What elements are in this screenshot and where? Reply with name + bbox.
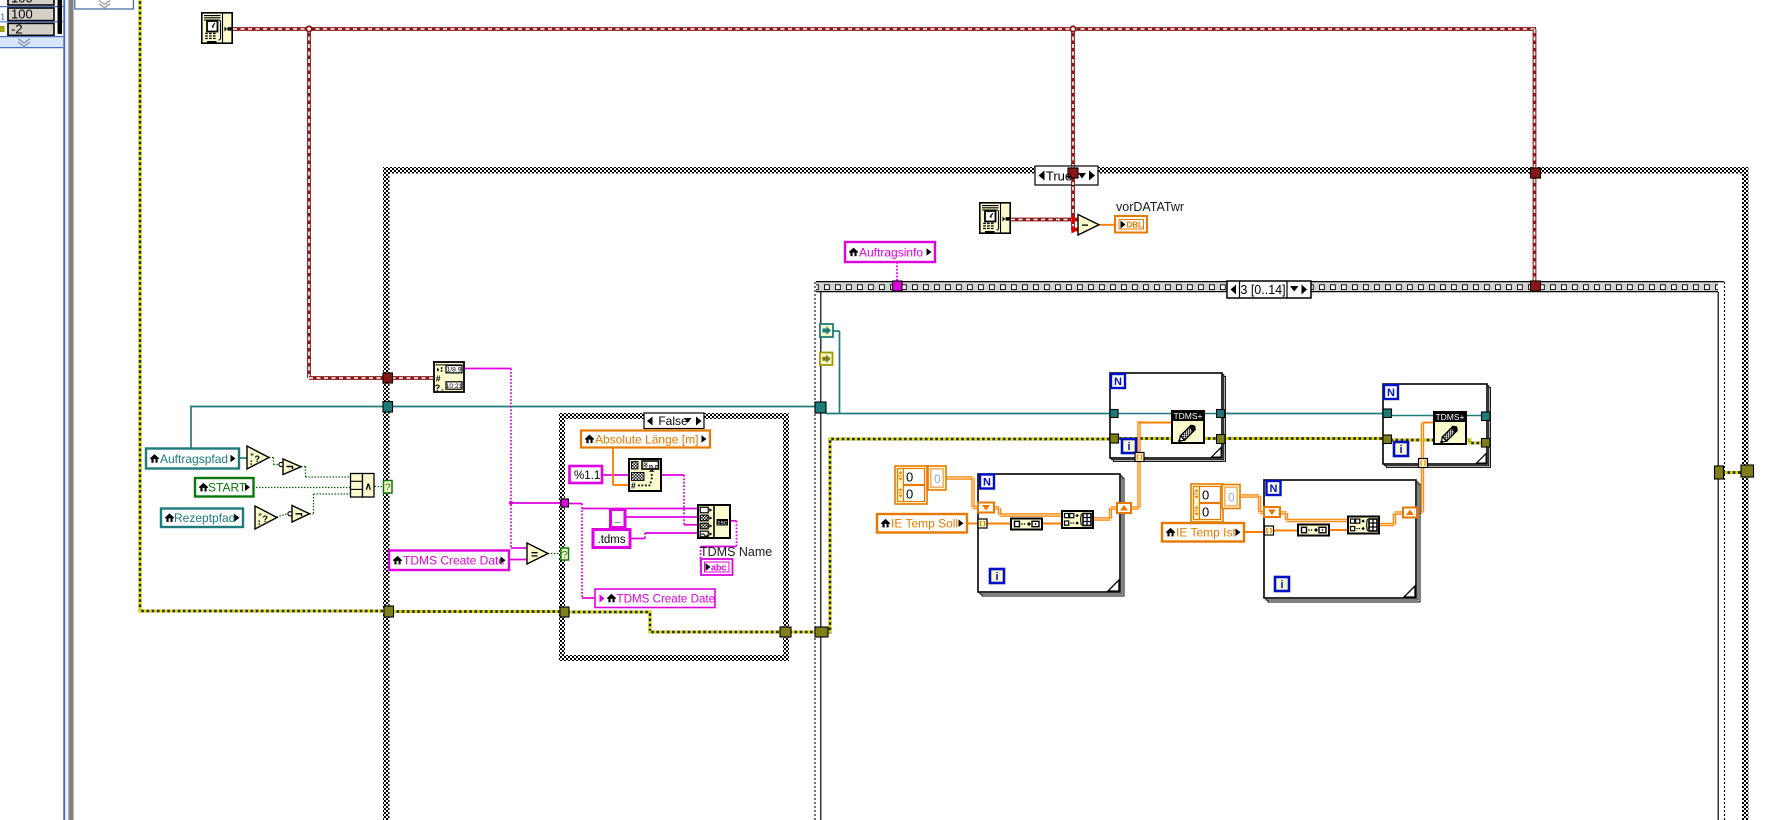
svg-text:∧: ∧ [365, 481, 372, 492]
svg-text:START: START [208, 481, 247, 495]
svg-text:IE Temp Ist: IE Temp Ist [1176, 526, 1236, 540]
svg-text:I5C: I5C [717, 520, 728, 527]
svg-text:1/8.9: 1/8.9 [446, 367, 461, 374]
svg-text:”: ” [258, 513, 262, 522]
svg-text:3 [0..14]: 3 [0..14] [1240, 283, 1285, 297]
svg-text:abc: abc [711, 563, 727, 573]
svg-text:”: ” [250, 453, 254, 462]
svg-text:-2: -2 [11, 22, 23, 37]
svg-text:100: 100 [11, 0, 33, 6]
svg-text:TDMS Create Date: TDMS Create Date [617, 593, 716, 606]
svg-text:Rezeptpfad: Rezeptpfad [174, 511, 235, 525]
svg-text:IE Temp Soll: IE Temp Soll [891, 517, 958, 531]
svg-text:?: ? [385, 483, 391, 494]
svg-text:vorDATATwr: vorDATATwr [1116, 200, 1184, 214]
svg-text:10:21: 10:21 [445, 383, 462, 390]
svg-text:TDMS Name: TDMS Name [700, 545, 772, 559]
svg-text:True: True [1046, 169, 1072, 184]
svg-text:?: ? [435, 383, 441, 393]
svg-text:%1.1: %1.1 [574, 470, 600, 482]
svg-text:100: 100 [11, 7, 33, 22]
svg-text:?: ? [255, 454, 261, 464]
svg-text:#: # [436, 373, 441, 383]
svg-text:?: ? [263, 514, 269, 524]
svg-text:=: = [531, 548, 538, 562]
svg-text:_: _ [614, 513, 622, 525]
svg-text:−: − [1081, 218, 1088, 232]
svg-text:Absolute Länge [m]: Absolute Länge [m] [595, 432, 698, 446]
svg-text:1: 1 [1, 13, 6, 22]
svg-text:DBL: DBL [1127, 221, 1144, 230]
svg-text:False: False [658, 414, 688, 428]
svg-text:Auftragspfad: Auftragspfad [160, 452, 228, 466]
svg-text:#: # [631, 481, 636, 491]
svg-text:Auftragsinfo: Auftragsinfo [859, 245, 923, 259]
svg-text:n.n: n.n [649, 463, 659, 470]
svg-text:TDMS Create Date: TDMS Create Date [403, 554, 505, 568]
svg-text:?: ? [562, 550, 568, 561]
svg-text:.tdms: .tdms [598, 534, 626, 546]
